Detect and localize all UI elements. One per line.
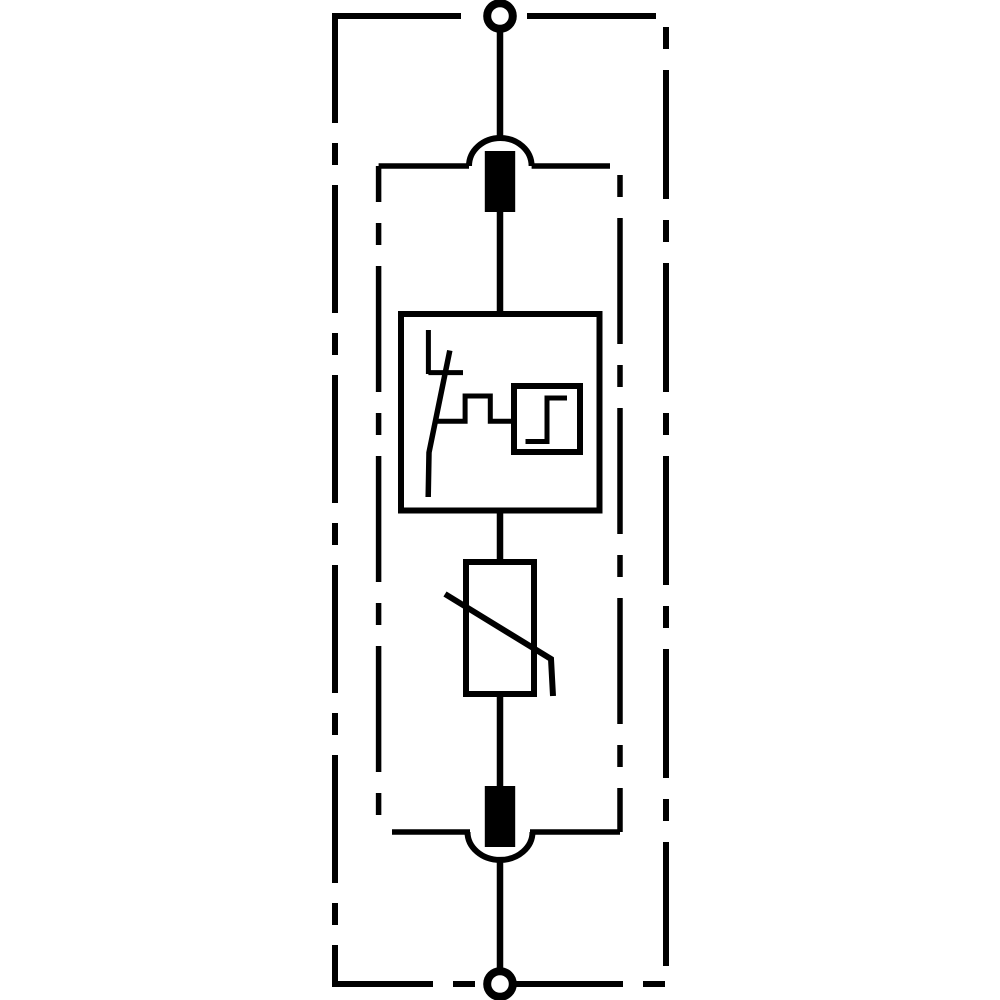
disconnector box U1 (401, 314, 600, 511)
wire: lower plug contact to bottom terminal (497, 860, 504, 970)
outer dash-dot enclosure border: bottom edge (332, 981, 666, 987)
inner dashed module boundary: top edge right segment (532, 163, 610, 169)
inner dashed module boundary: bottom edge left segment (392, 829, 470, 835)
inner dashed module boundary: right edge (617, 166, 623, 832)
outer dash-dot enclosure border: top edge right dash (527, 13, 656, 19)
varistor RV1: rectangle body (466, 562, 534, 694)
disconnector switch: blade (428, 351, 450, 498)
outer dash-dot enclosure border: left edge (332, 13, 338, 984)
wire: upper plug contact to disconnector box (497, 210, 504, 316)
inner dashed module boundary: left edge (376, 166, 382, 832)
defect indicator box (514, 386, 580, 452)
disconnector switch: contact seat horizontal line (428, 370, 463, 375)
surge waveform step line (437, 396, 514, 421)
plug-in contact top: filled contact blade rectangle (485, 151, 515, 212)
plug-in contact bottom: semicircle arc (468, 832, 533, 860)
varistor RV1: diagonal non-linearity stroke (445, 594, 553, 696)
outer dash-dot enclosure border: right edge (663, 16, 669, 966)
wire: top terminal to upper plug contact (497, 29, 504, 141)
terminal circle: top (487, 3, 513, 29)
plug-in contact bottom: filled contact blade rectangle (485, 786, 515, 847)
disconnector switch: fixed contact vertical line (426, 330, 431, 374)
plug-in contact top: semicircle arc (469, 138, 532, 166)
inner dashed module boundary: top edge left segment (379, 163, 469, 169)
defect indicator step symbol (526, 398, 568, 442)
outer dash-dot enclosure border: top edge left dash (332, 13, 461, 19)
inner dashed module boundary: bottom edge right segment (530, 829, 620, 835)
terminal circle: bottom (487, 971, 513, 997)
wire: varistor to lower plug contact (497, 694, 504, 788)
wire: disconnector box to varistor (497, 509, 504, 563)
